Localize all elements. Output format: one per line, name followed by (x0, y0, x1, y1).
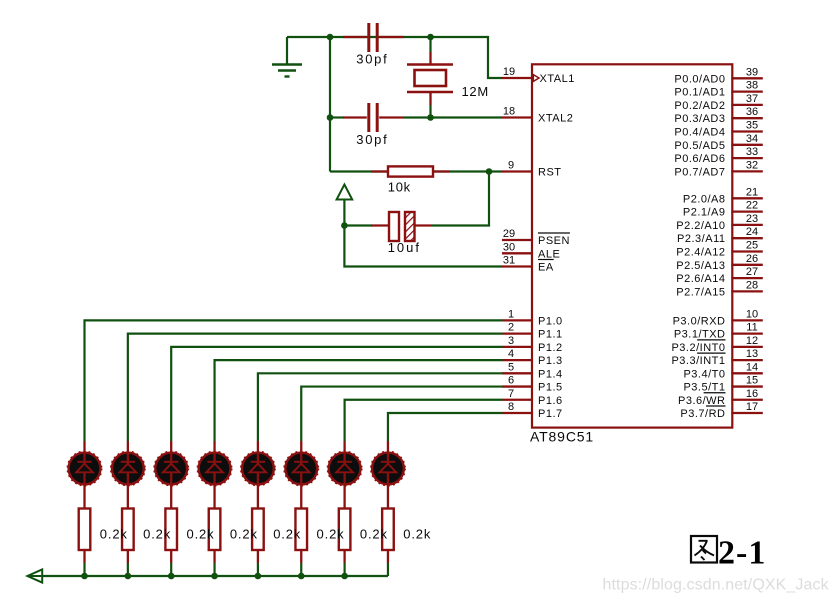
svg-text:27: 27 (746, 266, 758, 278)
svg-text:15: 15 (746, 375, 758, 387)
svg-text:P2.0/A8: P2.0/A8 (683, 193, 726, 205)
LED D7 (327, 441, 361, 509)
svg-text:9: 9 (508, 160, 514, 172)
svg-text:P1.5: P1.5 (538, 382, 563, 394)
node bus junction 5 (255, 573, 262, 580)
pin 21 P2.0/A8 lead (683, 186, 763, 205)
pin 8 P1.7 lead (502, 401, 563, 420)
pin 22 P2.1/A9 lead (683, 200, 763, 219)
svg-text:12: 12 (746, 335, 758, 347)
node bus junction 1 (81, 573, 88, 580)
pin 4 P1.3 lead (502, 348, 563, 367)
svg-text:33: 33 (746, 146, 758, 158)
svg-text:P0.5/AD5: P0.5/AD5 (674, 140, 725, 152)
wire P1.2 to LED D3 column (171, 347, 502, 441)
svg-text:37: 37 (746, 93, 758, 105)
wire P1.6 to LED D7 column (345, 400, 503, 441)
wire P1.7 to LED D8 column (388, 413, 503, 441)
pin 6 P1.5 lead (502, 375, 563, 394)
node bus junction 2 (125, 573, 132, 580)
svg-text:0.2k: 0.2k (273, 526, 301, 541)
pin 31 EA lead (502, 255, 554, 274)
svg-text:11: 11 (746, 322, 757, 334)
capacitor C3 10uf electrolytic (371, 212, 432, 255)
svg-text:0.2k: 0.2k (360, 526, 388, 541)
node bus junction 3 (168, 573, 175, 580)
LED D4 (197, 441, 231, 509)
pin 24 P2.3/A11 lead (677, 226, 763, 245)
wire P1.1 to LED D2 column (128, 334, 503, 441)
svg-text:0.2k: 0.2k (187, 526, 215, 541)
svg-text:P1.3: P1.3 (538, 355, 563, 367)
wire resistor R7 to bus (300, 563, 302, 576)
resistor R8 value label (360, 526, 388, 541)
LED D8 (371, 441, 405, 509)
wire RST junction down to C3 (432, 172, 489, 226)
svg-text:EA: EA (538, 262, 554, 274)
pin 19 XTAL1 lead (502, 66, 575, 85)
resistor R1 10k (371, 166, 450, 194)
svg-text:1: 1 (508, 308, 514, 320)
pin 23 P2.2/A10 lead (676, 213, 763, 232)
svg-text:18: 18 (503, 106, 515, 118)
pin 33 P0.6/AD6 lead (674, 146, 762, 165)
wire RST row (330, 170, 503, 172)
svg-text:19: 19 (503, 66, 515, 78)
pin 16 P3.6/WR lead (678, 388, 763, 407)
pin 1 P1.0 lead (502, 308, 563, 327)
svg-text:34: 34 (746, 133, 758, 145)
LED D2 (111, 441, 145, 509)
svg-text:30: 30 (503, 241, 515, 253)
wire P1.5 to LED D6 column (301, 387, 502, 441)
svg-text:P0.4/AD4: P0.4/AD4 (674, 127, 725, 139)
svg-text:P0.0/AD0: P0.0/AD0 (674, 73, 725, 85)
LED D5 (241, 441, 275, 509)
resistor R2 value label (100, 526, 128, 541)
wire vertical branch C1-C2-RST (329, 37, 331, 172)
resistor R8 0.2k (339, 509, 351, 564)
svg-text:10k: 10k (388, 180, 411, 195)
resistor R7 0.2k (295, 509, 307, 564)
svg-text:P2.3/A11: P2.3/A11 (677, 233, 725, 245)
pin 12 P3.2/INT0 lead (671, 335, 762, 354)
watermark (603, 577, 830, 594)
caption tu 2-1 (691, 535, 766, 572)
wire resistor R5 to bus (213, 563, 215, 576)
wire C2 row to XTAL2 (404, 116, 503, 118)
svg-text:P2.4/A12: P2.4/A12 (676, 247, 725, 259)
svg-text:P1.2: P1.2 (538, 342, 563, 354)
pin 18 XTAL2 lead (502, 106, 573, 125)
LED D6 (284, 441, 318, 509)
resistor R9 value label (403, 526, 431, 541)
wire resistor R6 to bus (257, 563, 259, 576)
resistor R5 value label (230, 526, 258, 541)
svg-text:P3.3/INT1: P3.3/INT1 (671, 355, 725, 367)
svg-text:0.2k: 0.2k (230, 526, 258, 541)
power terminal arrow up (337, 185, 353, 226)
svg-text:30pf: 30pf (356, 52, 388, 67)
svg-text:P0.3/AD3: P0.3/AD3 (674, 113, 725, 125)
LED D3 (154, 441, 188, 509)
svg-text:P0.7/AD7: P0.7/AD7 (674, 166, 725, 178)
svg-text:P1.4: P1.4 (538, 368, 563, 380)
svg-text:XTAL1: XTAL1 (540, 73, 575, 85)
svg-text:30pf: 30pf (356, 132, 388, 147)
pin 34 P0.5/AD5 lead (674, 133, 762, 152)
svg-text:P2.1/A9: P2.1/A9 (683, 207, 726, 219)
svg-text:P1.0: P1.0 (538, 315, 563, 327)
svg-text:35: 35 (746, 120, 758, 132)
svg-text:AT89C51: AT89C51 (530, 428, 594, 444)
pin 7 P1.6 lead (502, 388, 563, 407)
resistor R2 0.2k (79, 509, 91, 564)
svg-text:29: 29 (503, 228, 515, 240)
svg-text:25: 25 (746, 240, 758, 252)
IC U1 AT89C51 microcontroller (530, 64, 732, 444)
pin 2 P1.1 lead (502, 322, 563, 341)
svg-text:P1.7: P1.7 (538, 408, 563, 420)
node junction crystal bottom XTAL2 (427, 114, 434, 121)
svg-text:P3.5/T1: P3.5/T1 (683, 382, 725, 394)
svg-text:P2.6/A14: P2.6/A14 (676, 273, 725, 285)
svg-text:6: 6 (508, 375, 514, 387)
svg-text:P2.5/A13: P2.5/A13 (676, 260, 725, 272)
svg-text:0.2k: 0.2k (143, 526, 171, 541)
resistor R7 value label (317, 526, 345, 541)
wire P1.3 to LED D4 column (215, 360, 503, 441)
pin 39 P0.0/AD0 lead (674, 66, 762, 85)
svg-text:P3.2/INT0: P3.2/INT0 (671, 342, 725, 354)
svg-text:38: 38 (746, 80, 758, 92)
svg-text:PSEN: PSEN (538, 235, 570, 247)
pin 5 P1.4 lead (502, 361, 563, 380)
pin 11 P3.1/TXD lead (674, 322, 763, 341)
pin 32 P0.7/AD7 lead (674, 159, 762, 178)
node bus junction 4 (211, 573, 218, 580)
svg-text:P3.4/T0: P3.4/T0 (683, 368, 725, 380)
svg-text:4: 4 (508, 348, 514, 360)
pin 10 P3.0/RXD lead (673, 308, 763, 327)
svg-text:P1.6: P1.6 (538, 395, 563, 407)
ground (272, 37, 302, 77)
svg-text:10uf: 10uf (388, 240, 421, 255)
svg-text:7: 7 (508, 388, 514, 400)
svg-text:14: 14 (746, 361, 758, 373)
svg-text:23: 23 (746, 213, 758, 225)
wire resistor R8 to bus (344, 563, 346, 576)
svg-text:17: 17 (746, 401, 758, 413)
wire C3 left down to EA (344, 226, 502, 267)
svg-text:0.2k: 0.2k (100, 526, 128, 541)
wire resistor R9 to bus (387, 563, 389, 576)
svg-text:24: 24 (746, 226, 758, 238)
pin 35 P0.4/AD4 lead (674, 120, 762, 139)
node junction C3 left (341, 222, 348, 229)
svg-text:0.2k: 0.2k (317, 526, 345, 541)
resistor R3 value label (143, 526, 171, 541)
wire resistor R3 to bus (127, 563, 129, 576)
resistor R4 value label (187, 526, 215, 541)
svg-text:ALE: ALE (538, 248, 560, 260)
svg-text:P2.2/A10: P2.2/A10 (676, 220, 725, 232)
node junction C2 left (327, 114, 334, 121)
pin 17 P3.7/RD lead (680, 401, 762, 420)
svg-text:36: 36 (746, 106, 758, 118)
svg-text:26: 26 (746, 253, 758, 265)
node bus junction 6 (298, 573, 305, 580)
pin 30 ALE lead (502, 241, 560, 260)
resistor R6 value label (273, 526, 301, 541)
resistor R9 0.2k (382, 509, 394, 564)
svg-text:P0.2/AD2: P0.2/AD2 (674, 100, 725, 112)
svg-text:21: 21 (746, 186, 758, 198)
svg-text:P3.1/TXD: P3.1/TXD (674, 329, 726, 341)
resistor R3 0.2k (122, 509, 134, 564)
wire junction to C2 left lead (330, 116, 344, 118)
svg-text:16: 16 (746, 388, 758, 400)
svg-text:10: 10 (746, 308, 758, 320)
pin 27 P2.6/A14 lead (676, 266, 763, 285)
svg-text:28: 28 (746, 279, 758, 291)
pin 9 RST lead (502, 160, 562, 179)
svg-text:XTAL2: XTAL2 (538, 113, 573, 125)
wire P1.4 to LED D5 column (258, 373, 503, 441)
LED D1 (67, 441, 101, 509)
node junction C1 left (327, 34, 334, 41)
svg-text:P1.1: P1.1 (538, 329, 563, 341)
node junction crystal top (427, 34, 434, 41)
wire P1.0 to LED D1 column (85, 320, 503, 441)
node junction RST C3 (486, 168, 493, 175)
svg-text:39: 39 (746, 66, 758, 78)
power terminal arrow left with bus wire (27, 569, 388, 582)
pin 25 P2.4/A12 lead (676, 240, 763, 259)
wire ground to C1 to XTAL1 (287, 37, 503, 78)
svg-text:https://blog.csdn.net/QXK_Jack: https://blog.csdn.net/QXK_Jack (603, 577, 830, 594)
resistor R4 0.2k (165, 509, 177, 564)
svg-text:32: 32 (746, 159, 758, 171)
pin 15 P3.5/T1 lead (683, 375, 762, 394)
svg-text:3: 3 (508, 335, 514, 347)
svg-text:2: 2 (508, 322, 514, 334)
svg-text:RST: RST (538, 167, 562, 179)
svg-text:P3.7/RD: P3.7/RD (680, 408, 725, 420)
capacitor C2 30pf (343, 103, 404, 147)
capacitor C1 30pf (343, 23, 404, 67)
svg-text:P3.6/WR: P3.6/WR (678, 395, 726, 407)
svg-text:P0.1/AD1: P0.1/AD1 (674, 87, 725, 99)
pin 36 P0.3/AD3 lead (674, 106, 762, 125)
pin 3 P1.2 lead (502, 335, 563, 354)
pin 13 P3.3/INT1 lead (671, 348, 762, 367)
svg-text:31: 31 (503, 255, 515, 267)
pin 14 P3.4/T0 lead (683, 361, 762, 380)
wire resistor R4 to bus (170, 563, 172, 576)
pin 28 P2.7/A15 lead (676, 279, 763, 298)
svg-text:22: 22 (746, 200, 758, 212)
svg-text:P2.7/A15: P2.7/A15 (676, 286, 725, 298)
svg-text:8: 8 (508, 401, 514, 413)
resistor R6 0.2k (252, 509, 264, 564)
pin 29 PSEN lead (502, 228, 570, 247)
svg-text:P3.0/RXD: P3.0/RXD (673, 315, 726, 327)
resistor R5 0.2k (209, 509, 221, 564)
svg-text:12M: 12M (462, 84, 489, 99)
pin 37 P0.2/AD2 lead (674, 93, 762, 112)
pin 38 P0.1/AD1 lead (674, 80, 762, 99)
pin 26 P2.5/A13 lead (676, 253, 763, 272)
node bus junction 7 (341, 573, 348, 580)
svg-text:2-1: 2-1 (718, 535, 766, 572)
wire junction to C3 left lead (344, 224, 372, 226)
svg-text:0.2k: 0.2k (403, 526, 431, 541)
svg-text:P0.6/AD6: P0.6/AD6 (674, 153, 725, 165)
wire resistor R2 to bus (83, 563, 85, 576)
svg-text:13: 13 (746, 348, 758, 360)
crystal X1 12M (407, 37, 489, 118)
svg-text:5: 5 (508, 361, 514, 373)
